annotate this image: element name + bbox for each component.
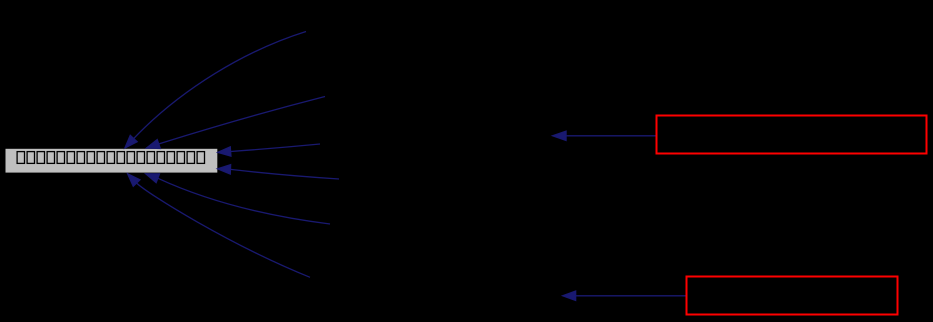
node: red truncated box 2 (lower right) <box>687 277 898 315</box>
edge 3 (caller 3 -> N0, right-edge upper, near straight) <box>217 144 320 156</box>
edge 6 (caller 6 -> N0, bottom steep curve) <box>127 173 310 277</box>
edge 5 (caller 5 -> N0, lower gentle curve) <box>145 174 330 224</box>
tofu glyph row (missing CJK glyphs) <box>17 152 204 164</box>
edge 1 (caller 1 -> N0, top steep curve) <box>125 32 306 149</box>
edge 2 (caller 2 -> N0, upper gentle curve) <box>146 97 325 149</box>
edge 7 (red box 1 -> hidden middle node) <box>552 131 655 141</box>
node: red truncated box 1 (upper right) <box>657 116 927 154</box>
edge 8 (red box 2 -> hidden middle node) <box>562 291 685 301</box>
edge 4 (caller 4 -> N0, right-edge lower, near straight) <box>217 165 339 180</box>
node N0 (current function, grey box) <box>6 149 218 173</box>
